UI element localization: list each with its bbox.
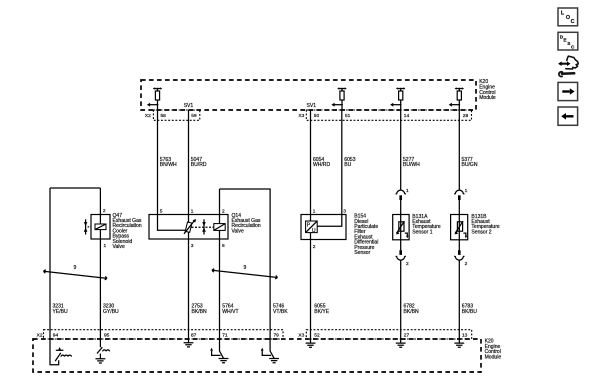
svg-text:C: C [571,45,575,51]
svg-text:Valve: Valve [232,228,244,234]
svg-text:Module: Module [485,355,502,361]
svg-text:BU: BU [344,162,351,168]
svg-text:SV1: SV1 [307,103,317,109]
svg-text:50: 50 [314,113,320,119]
svg-text:O: O [566,15,570,21]
svg-text:BK/YE: BK/YE [314,309,330,315]
svg-text:GY/BU: GY/BU [103,309,119,315]
svg-text:2: 2 [222,208,225,214]
svg-text:2: 2 [465,261,468,267]
svg-text:BU/WH: BU/WH [403,162,420,168]
svg-text:79: 79 [274,333,280,339]
svg-text:71: 71 [222,333,228,339]
svg-text:13: 13 [462,333,468,339]
svg-text:2: 2 [406,261,409,267]
svg-text:BN/WH: BN/WH [160,162,177,168]
svg-text:52: 52 [314,333,320,339]
svg-text:Sensor 2: Sensor 2 [471,229,491,235]
svg-text:1: 1 [406,188,409,194]
svg-text:2: 2 [103,208,106,214]
svg-text:U: U [312,228,316,234]
svg-text:59: 59 [191,113,197,119]
svg-text:1: 1 [313,208,316,214]
svg-text:9: 9 [244,265,247,271]
svg-text:BK/BU: BK/BU [462,309,478,315]
svg-text:87: 87 [191,333,197,339]
svg-text:95: 95 [104,333,110,339]
svg-text:VT/BK: VT/BK [273,309,288,315]
svg-text:28: 28 [463,113,469,119]
svg-text:C: C [571,19,575,25]
svg-text:3: 3 [191,243,194,249]
svg-text:X3: X3 [298,113,304,119]
svg-text:6: 6 [222,243,225,249]
svg-text:9: 9 [74,265,77,271]
svg-text:BK/BN: BK/BN [192,309,208,315]
svg-text:3: 3 [343,208,346,214]
svg-text:SV1: SV1 [184,103,194,109]
svg-text:2: 2 [313,244,316,250]
svg-text:X3: X3 [298,332,304,338]
svg-text:BU/GN: BU/GN [462,162,478,168]
svg-text:5: 5 [160,208,163,214]
svg-text:94: 94 [53,333,59,339]
svg-text:1: 1 [104,243,107,249]
svg-text:1: 1 [191,208,194,214]
svg-text:BU/RD: BU/RD [191,162,207,168]
svg-text:Valve: Valve [113,244,125,250]
svg-text:1: 1 [465,188,468,194]
svg-text:Sensor 1: Sensor 1 [412,229,432,235]
svg-text:27: 27 [404,333,410,339]
svg-text:Sensor: Sensor [354,250,370,256]
svg-text:X2: X2 [145,113,151,119]
svg-text:YE/BU: YE/BU [53,309,69,315]
svg-text:BK/BN: BK/BN [404,309,420,315]
svg-text:WH/VT: WH/VT [222,309,238,315]
svg-text:X2: X2 [37,332,43,338]
svg-text:58: 58 [161,113,167,119]
svg-text:Module: Module [479,95,496,101]
svg-text:14: 14 [404,113,410,119]
svg-text:WH/RD: WH/RD [313,162,330,168]
svg-text:51: 51 [345,113,351,119]
